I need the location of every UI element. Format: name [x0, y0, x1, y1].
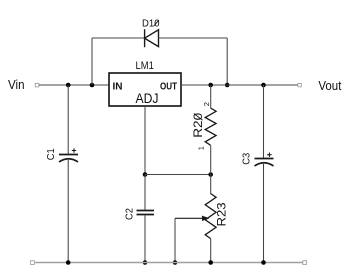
svg-text:OUT: OUT	[160, 82, 177, 93]
junction C3 top	[261, 83, 266, 88]
capacitor C3	[255, 153, 274, 167]
pin 1 R20	[197, 146, 206, 150]
terminal ground right	[303, 261, 307, 265]
capacitor C2	[137, 211, 155, 215]
wire D10 anode to right	[159, 37, 228, 39]
junction R20 bottom R23 top	[208, 172, 213, 177]
terminal ground left	[31, 261, 35, 265]
svg-text:C1: C1	[46, 148, 57, 160]
wire C3 top	[263, 85, 265, 159]
junction D10 anode branch	[225, 83, 230, 88]
svg-text:LM1: LM1	[136, 60, 154, 72]
label R23	[215, 202, 229, 226]
svg-text:ADJ: ADJ	[136, 90, 159, 106]
svg-text:D10: D10	[142, 18, 160, 30]
junction wiper ground	[173, 260, 178, 265]
junction C1 input	[66, 83, 71, 88]
ground rail wire	[35, 262, 303, 264]
wire Vin to LM1 IN	[39, 84, 109, 86]
junction C3 ground	[261, 260, 266, 265]
node Vout	[318, 78, 341, 93]
svg-text:IN: IN	[113, 82, 123, 93]
wire C1 top	[67, 85, 69, 155]
svg-text:1: 1	[197, 146, 206, 150]
junction ADJ node	[143, 172, 148, 177]
resistor R20	[205, 85, 216, 175]
wire C3 to ground rail	[263, 163, 265, 263]
junction C1 ground	[66, 260, 71, 265]
wire LM1 OUT to Vout	[181, 84, 298, 86]
wiper arrow R23	[175, 216, 210, 221]
label R20	[191, 112, 205, 137]
svg-text:Vout: Vout	[318, 78, 341, 93]
terminal Vout	[298, 83, 301, 86]
capacitor C1	[59, 148, 78, 162]
junction R20 top	[208, 83, 213, 88]
wire top rail to D10 cathode	[92, 37, 145, 39]
svg-text:2: 2	[202, 102, 211, 106]
label C1	[46, 148, 57, 160]
wire D10 left vertical	[91, 38, 93, 85]
label C3	[241, 152, 252, 164]
svg-text:C2: C2	[125, 208, 136, 220]
svg-text:Vin: Vin	[8, 77, 25, 92]
wire C1 to ground rail	[67, 159, 69, 263]
junction D10 cathode branch	[90, 83, 95, 88]
diode D10	[145, 29, 159, 47]
label D10	[142, 18, 160, 30]
wire C2 top	[144, 175, 146, 210]
regulator LM1	[109, 60, 181, 106]
svg-text:C3: C3	[241, 152, 252, 164]
wire C2 to ground rail	[144, 215, 146, 262]
label C2	[125, 208, 136, 220]
pin 2 R20	[202, 102, 211, 106]
junction C2 ground	[143, 260, 148, 265]
junction R23 ground	[208, 260, 213, 265]
wire ADJ to R20 bottom	[145, 174, 211, 176]
wire LM1 ADJ down	[144, 106, 146, 175]
wire R23 wiper to ground rail	[174, 218, 176, 262]
node Vin	[8, 77, 25, 92]
terminal Vin	[35, 83, 39, 87]
potentiometer R23	[205, 175, 216, 263]
wire D10 right vertical	[226, 38, 228, 85]
svg-text:R23: R23	[215, 202, 229, 226]
